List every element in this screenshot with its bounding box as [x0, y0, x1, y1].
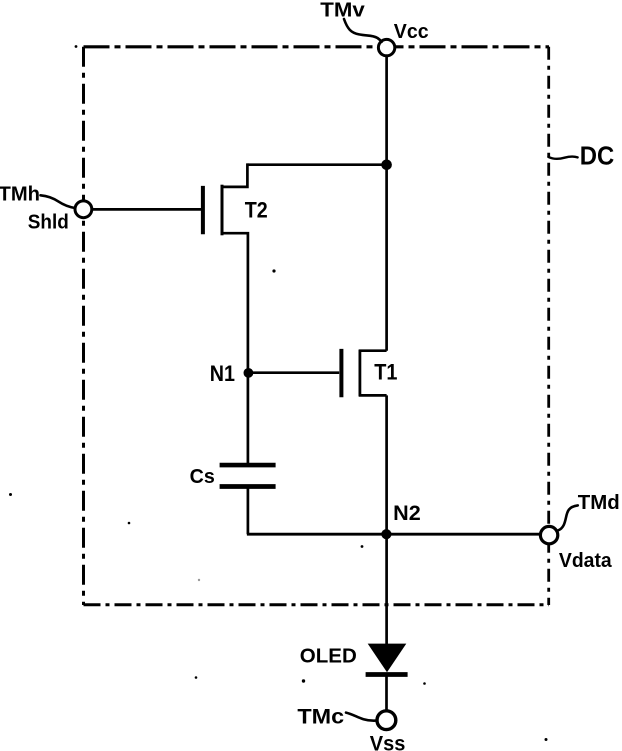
DC boundary box: bottom edge — [84, 603, 550, 606]
leader from label TMv to Vcc terminal — [344, 19, 382, 42]
transistor T2: source stub down to node N1 — [221, 233, 248, 373]
svg-text:N2: N2 — [393, 502, 421, 525]
wire: T1 source down to node N2 — [385, 395, 388, 534]
svg-text:TMd: TMd — [578, 492, 620, 514]
transistor T1: drain stub to Vcc rail — [359, 349, 387, 352]
terminal TMh (Shld) circle — [75, 201, 92, 218]
wire: node N1 to T1 gate — [248, 371, 339, 374]
leader from label TMh to TMh terminal — [41, 195, 76, 208]
transistor T2: channel bar — [221, 185, 224, 236]
wire: OLED cathode to Vss terminal — [385, 677, 388, 712]
DC boundary box: top edge — [84, 45, 550, 48]
wire: N2 down to OLED anode — [385, 534, 388, 646]
capacitor Cs: top plate — [220, 463, 276, 468]
leader from right border to label DC — [548, 156, 577, 158]
svg-text:TMc: TMc — [297, 704, 344, 728]
svg-text:Shld: Shld — [28, 212, 69, 234]
svg-text:OLED: OLED — [300, 644, 357, 667]
svg-text:DC: DC — [580, 142, 615, 170]
svg-text:Cs: Cs — [190, 465, 215, 488]
transistor T2: drain stub up to top wire — [221, 163, 248, 187]
terminal TMc (Vss) circle — [377, 711, 396, 730]
svg-text:Vcc: Vcc — [394, 21, 429, 43]
svg-text:TMv: TMv — [320, 0, 365, 21]
node N1 dot — [244, 368, 254, 378]
diode OLED: cathode bar — [366, 672, 408, 677]
transistor T2: gate bar — [201, 186, 205, 234]
svg-text:TMh: TMh — [0, 184, 40, 206]
transistor T1: gate bar — [339, 349, 343, 397]
transistor T1: source stub — [359, 394, 387, 397]
leader from label TMc to TMc terminal — [346, 713, 376, 721]
terminal TMd (Vdata) circle — [540, 526, 557, 543]
svg-text:T1: T1 — [374, 360, 397, 385]
capacitor Cs: wire from N1 down to top plate — [247, 373, 250, 464]
node N2 dot — [381, 529, 391, 539]
DC boundary box: right edge — [547, 47, 550, 605]
terminal TMv (Vcc) circle — [378, 39, 394, 55]
transistor T1: channel bar — [358, 350, 361, 396]
node junction dot on Vcc rail — [381, 160, 392, 171]
capacitor Cs: wire from bottom plate down — [247, 488, 250, 534]
svg-text:N1: N1 — [210, 361, 235, 386]
wire: Vcc rail from Vcc terminal down to T1 drain stub — [385, 56, 388, 351]
leader from TMd terminal to label TMd — [558, 505, 578, 530]
wire: bottom horizontal from Cs through N2 to TMd terminal — [247, 533, 541, 536]
DC boundary box: left edge — [82, 47, 85, 605]
wire: top horizontal from T2 drain to Vcc rail — [247, 163, 386, 166]
capacitor Cs: bottom plate — [220, 484, 276, 489]
svg-text:Vdata: Vdata — [559, 550, 613, 572]
transistor T2: gate wire from TMh terminal — [92, 208, 201, 211]
svg-text:Vss: Vss — [370, 733, 406, 751]
diode OLED: anode triangle — [368, 644, 407, 673]
svg-text:T2: T2 — [245, 197, 268, 222]
